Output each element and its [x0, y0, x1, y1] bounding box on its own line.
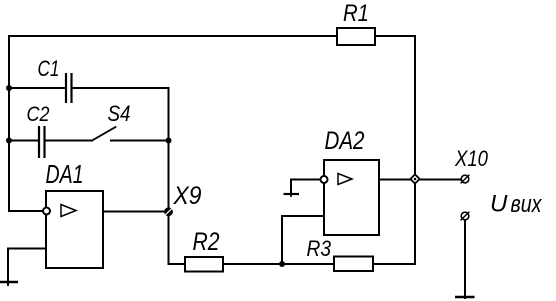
svg-text:X9: X9	[173, 182, 202, 210]
svg-text:X10: X10	[454, 146, 488, 171]
svg-text:U: U	[490, 191, 508, 218]
svg-text:S4: S4	[108, 101, 131, 126]
svg-text:C1: C1	[38, 56, 60, 81]
svg-text:R3: R3	[307, 236, 332, 261]
svg-text:R2: R2	[193, 228, 220, 256]
svg-text:вих: вих	[511, 191, 543, 218]
svg-text:DA1: DA1	[46, 159, 84, 189]
svg-text:DA2: DA2	[325, 127, 365, 155]
svg-text:C2: C2	[27, 103, 50, 126]
svg-text:R1: R1	[343, 0, 369, 27]
